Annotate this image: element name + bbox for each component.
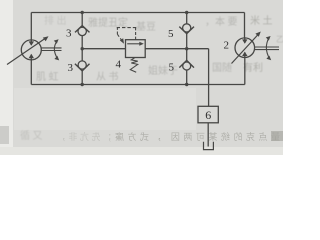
svg-text:米 土: 米 土	[250, 14, 273, 27]
relief valve 4	[126, 40, 146, 58]
check valve 3 lower	[75, 61, 90, 71]
svg-text:有利: 有利	[243, 61, 263, 74]
pump variable arrow (diagonal)	[7, 38, 47, 65]
relief valve pilot arrowhead	[120, 38, 124, 44]
wire: top edge to check valve 3 upper	[81, 13, 83, 26]
svg-text:2: 2	[224, 40, 230, 52]
left column wires	[81, 13, 83, 85]
pump arrowheads (inward)	[29, 41, 34, 45]
svg-text:3: 3	[66, 28, 72, 40]
motor variable arrow (diagonal)	[232, 34, 260, 64]
svg-text:从 书: 从 书	[96, 71, 119, 83]
svg-text:5: 5	[169, 62, 175, 74]
svg-text:排 出: 排 出	[44, 14, 67, 27]
wire: valve 6 to tank	[207, 123, 209, 147]
wire: left edge upper (pump to top)	[30, 13, 32, 41]
svg-text:雅提丑定: 雅提丑定	[88, 16, 128, 29]
svg-text:4: 4	[116, 59, 122, 71]
wire: top edge to check valve 5 upper	[186, 13, 188, 25]
motor shaft	[254, 47, 279, 50]
motor rotation arrow (curved, double-headed)	[266, 38, 269, 59]
wire: top edge of main loop	[31, 12, 244, 14]
wire: middle line to check valve 5 lower	[186, 49, 188, 61]
wire: bottom edge of main loop	[31, 84, 245, 86]
wire: check valve 3 upper to middle line	[81, 36, 83, 49]
wire: middle line right (relief valve to corner)	[145, 48, 208, 50]
svg-text:，本 要: ，本 要	[205, 15, 238, 28]
wire: vertical drop to valve 6	[208, 49, 210, 107]
svg-text:3: 3	[68, 62, 74, 74]
wire: middle line to check valve 3 lower	[81, 49, 83, 61]
pump shaft	[41, 48, 62, 51]
wire: left edge lower (pump to bottom)	[30, 60, 32, 85]
wire: check valve 5 lower to bottom edge	[186, 70, 188, 85]
svg-text:；先亢非，: ；先亢非，	[57, 131, 112, 142]
check valve 3 upper	[75, 26, 90, 36]
right column wires	[186, 13, 188, 85]
wire: check valve 5 upper to middle line	[186, 33, 188, 49]
svg-text:国随: 国随	[212, 61, 232, 74]
relief valve internal arrow	[127, 43, 141, 45]
relief valve spring	[130, 57, 137, 72]
pump rotation arrow (curved, double-headed)	[54, 41, 57, 59]
paper background	[0, 0, 283, 155]
junction: boost line / right check-valve column	[185, 47, 188, 50]
svg-text:基豆: 基豆	[136, 20, 156, 33]
motor 2 (variable bidirectional)	[235, 38, 255, 58]
junction: top edge / left check-valve column	[81, 11, 84, 14]
junction: top edge / right check-valve column	[185, 11, 188, 14]
wire: right edge upper (top to motor)	[244, 13, 246, 39]
faint bleed-through text row (bottom)	[57, 131, 280, 142]
svg-text:肌 虹: 肌 虹	[36, 71, 59, 83]
relief valve pilot line (dashed)	[117, 27, 136, 41]
wire: right edge lower (motor to bottom)	[244, 57, 246, 84]
pump 1 (variable bidirectional)	[21, 40, 41, 60]
junction: boost line / left check-valve column	[81, 47, 84, 50]
svg-text:6: 6	[205, 108, 211, 122]
check valve 5 upper	[179, 24, 194, 34]
auxiliary unit 6 (box)	[198, 106, 218, 123]
wire: check valve 3 lower to bottom edge	[81, 71, 83, 85]
tank	[204, 142, 214, 150]
svg-text:循 又: 循 又	[20, 129, 43, 142]
motor arrowheads (inward)	[242, 39, 247, 43]
svg-text:5: 5	[168, 28, 174, 40]
check valve 5 lower	[179, 60, 194, 70]
wire: middle line left (column 3 to relief valve)	[82, 48, 125, 50]
svg-text:乙: 乙	[276, 35, 283, 44]
middle line (boost line)	[82, 49, 208, 107]
junction: bottom edge / left check-valve column	[81, 83, 84, 86]
junction: bottom edge / right check-valve column	[185, 83, 188, 86]
